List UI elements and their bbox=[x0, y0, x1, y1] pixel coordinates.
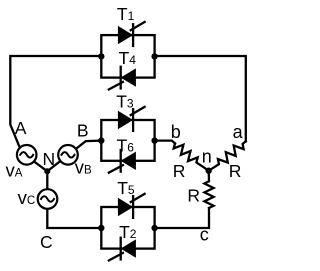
svg-text:c: c bbox=[200, 224, 209, 244]
svg-text:N: N bbox=[43, 149, 56, 169]
source vC bbox=[38, 189, 58, 209]
thyristor T5 bbox=[118, 193, 146, 219]
svg-text:T6: T6 bbox=[117, 136, 135, 156]
node dot middle pair left bbox=[98, 137, 104, 143]
box thyristor pair T3/T6 bbox=[101, 120, 154, 161]
svg-text:T4: T4 bbox=[119, 48, 137, 68]
svg-text:T1: T1 bbox=[117, 4, 135, 24]
thyristor T2 bbox=[108, 237, 136, 261]
svg-text:R: R bbox=[187, 185, 200, 205]
resistor R phase-c zigzag bbox=[204, 171, 213, 208]
svg-text:B: B bbox=[77, 121, 89, 141]
resistor R phase-b zigzag bbox=[174, 143, 209, 170]
source vA bbox=[17, 145, 37, 165]
svg-text:T2: T2 bbox=[119, 222, 137, 242]
thyristor T3 bbox=[118, 106, 146, 132]
resistor R phase-a zigzag bbox=[209, 141, 246, 171]
svg-text:T5: T5 bbox=[117, 178, 135, 198]
svg-text:R: R bbox=[173, 161, 186, 181]
wire bottom pair right terminal to load c riser bbox=[155, 208, 209, 228]
svg-text:vB: vB bbox=[75, 156, 92, 177]
node dot N bbox=[44, 168, 50, 174]
wire N to vB to B terminal bbox=[47, 141, 101, 172]
svg-text:a: a bbox=[233, 122, 244, 142]
svg-text:R: R bbox=[229, 161, 242, 181]
box thyristor pair T5/T2 bbox=[101, 207, 154, 249]
svg-text:A: A bbox=[15, 118, 27, 138]
svg-text:n: n bbox=[202, 147, 212, 167]
node dot middle pair right bbox=[151, 137, 157, 143]
svg-text:vC: vC bbox=[18, 187, 36, 208]
thyristor T1 bbox=[118, 21, 146, 47]
node dot top pair left bbox=[98, 53, 104, 59]
svg-text:C: C bbox=[40, 232, 53, 252]
node dot bottom pair left bbox=[98, 225, 104, 231]
node dot bottom pair right bbox=[151, 225, 157, 231]
wire top-right: top pair right terminal to right rail down to load a bbox=[155, 56, 246, 141]
source vB bbox=[58, 145, 78, 165]
wire middle pair right terminal to load b corner bbox=[155, 141, 175, 144]
wire top-left: top pair left terminal to left rail down to source A bbox=[10, 56, 101, 171]
svg-text:b: b bbox=[171, 122, 181, 142]
wire N down through vC to C rail bbox=[47, 171, 101, 228]
thyristor T6 bbox=[108, 149, 136, 173]
node dot top pair right bbox=[151, 53, 157, 59]
node dot n bbox=[206, 168, 212, 174]
box thyristor pair T1/T4 bbox=[101, 35, 154, 78]
svg-text:T3: T3 bbox=[116, 92, 134, 112]
thyristor T4 bbox=[108, 66, 136, 90]
